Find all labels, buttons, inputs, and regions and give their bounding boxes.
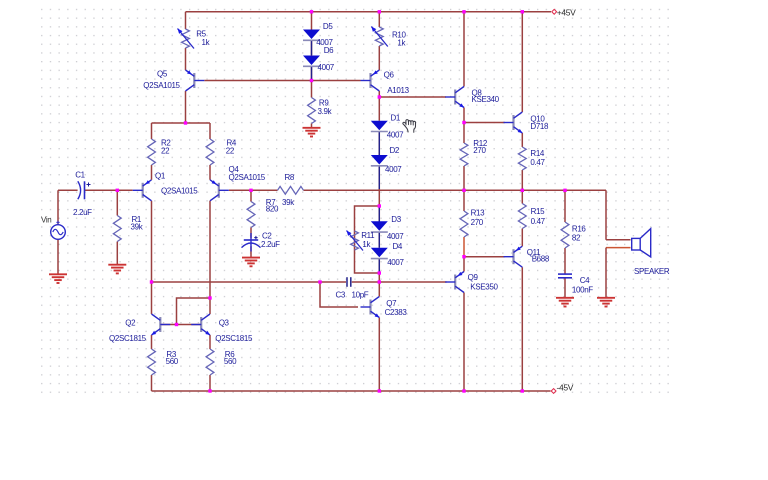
wire Q7 collector to Q9 base [379, 281, 446, 283]
wire R8 to output rail [304, 189, 607, 191]
wire Q2 base to Q3 base [160, 324, 201, 326]
svg-text:3.9k: 3.9k [318, 107, 333, 116]
svg-text:560: 560 [166, 357, 179, 366]
svg-text:4007: 4007 [318, 63, 335, 72]
transistor Q6 A1013 [361, 70, 380, 91]
svg-text:D6: D6 [324, 46, 334, 55]
node +45V R10 [378, 10, 381, 13]
wire top +45V rail [186, 11, 552, 13]
svg-text:-45V: -45V [557, 383, 574, 393]
svg-text:Q2SC1815: Q2SC1815 [109, 334, 147, 343]
svg-text:D2: D2 [390, 146, 400, 155]
node Q9 collector rail [462, 389, 465, 392]
resistor R8 39k [278, 186, 304, 194]
wire R5 top pin [185, 12, 187, 29]
ground (R9) [303, 128, 321, 137]
svg-text:KSE350: KSE350 [470, 283, 498, 292]
svg-text:A1013: A1013 [387, 86, 409, 95]
svg-text:R14: R14 [530, 149, 545, 158]
svg-text:1k: 1k [202, 38, 211, 47]
svg-text:Q3: Q3 [219, 319, 230, 328]
capacitor C2 2.2uF [250, 233, 252, 252]
wire R15 to Q11 emitter [521, 229, 523, 247]
svg-text:R13: R13 [471, 209, 486, 218]
wire Q3 emitter to R6 [209, 335, 211, 349]
svg-text:R15: R15 [531, 207, 546, 216]
mouse hand cursor [403, 120, 416, 133]
wire R16 to C4 [564, 248, 566, 274]
resistor R4 22 [206, 139, 214, 165]
wire Q4 base to R7 node [229, 189, 251, 191]
svg-text:D3: D3 [391, 215, 401, 224]
svg-text:Q6: Q6 [384, 71, 395, 80]
svg-text:560: 560 [224, 357, 237, 366]
svg-text:0.47: 0.47 [531, 217, 546, 226]
wire R14 to output [521, 170, 523, 190]
node Q1 collector/C3 line [150, 280, 153, 283]
terminal +45V [552, 9, 557, 14]
svg-text:KSE340: KSE340 [472, 95, 500, 104]
wire R10 top pin [378, 12, 380, 27]
transistor Q11 B688 [504, 246, 523, 267]
node Q5 collector/R2/R4 [184, 121, 187, 124]
diode D5 4007 [303, 30, 320, 40]
node output R16 [563, 189, 566, 192]
wire to Q7 base [320, 282, 358, 307]
wire Q1 collector down to Q2 collector [151, 201, 153, 314]
svg-text:R8: R8 [285, 173, 295, 182]
ground (Vin) [49, 274, 67, 283]
wire D4 down to Q7 collector [378, 259, 380, 297]
wire Q8 emitter to Q10 base [464, 122, 505, 124]
wire D6 cathode to R9 [311, 66, 313, 97]
wire Q1 collector node to C3 [152, 281, 321, 283]
svg-text:Q2SC1815: Q2SC1815 [215, 334, 253, 343]
resistor R5 1k (variable) [182, 29, 190, 48]
wire Q6 collector to Q8 base [379, 96, 446, 98]
wire Q8 emitter to R12 [463, 108, 465, 144]
svg-text:22: 22 [161, 146, 170, 155]
transistor Q2 Q2SC1815 [152, 314, 171, 335]
svg-text:39k: 39k [131, 223, 144, 232]
resistor R12 270 [460, 143, 468, 166]
resistor R6 560 [206, 349, 214, 375]
wire Vin to ground [57, 239, 59, 274]
svg-text:C2383: C2383 [385, 308, 408, 317]
node +45V Q10 [521, 10, 524, 13]
diode D6 4007 [303, 56, 320, 66]
wire R13 to Q11-base node [463, 237, 465, 257]
wire output to R13 [463, 190, 465, 211]
svg-text:SPEAKER: SPEAKER [634, 267, 670, 276]
svg-text:1k: 1k [397, 39, 406, 48]
resistor R11 1k (variable) [351, 231, 359, 250]
wire C3 left stub [320, 281, 346, 283]
transistor Q10 D718 [504, 112, 523, 133]
node Q11 collector rail [521, 389, 524, 392]
svg-text:C4: C4 [580, 276, 590, 285]
node +45V Q8 [462, 10, 465, 13]
node output R12/R13 [462, 189, 465, 192]
svg-text:820: 820 [266, 204, 279, 213]
resistor R16 82 [561, 222, 569, 248]
wire Q11 collector to bottom rail [521, 267, 523, 391]
wire R7 top pin [250, 190, 252, 201]
wire D5 cathode to D6 anode [311, 40, 313, 55]
transistor Q7 C2383 [361, 297, 380, 318]
capacitor C1 2.2uF [78, 181, 81, 199]
svg-text:2.2uF: 2.2uF [261, 240, 280, 249]
resistor R14 0.47 [518, 147, 526, 170]
wire R6 to bottom rail [209, 375, 211, 391]
svg-text:Q1: Q1 [155, 172, 166, 181]
capacitor C3 10pF [346, 277, 348, 287]
wire Q10 collector [521, 12, 523, 112]
node R6 bottom rail [208, 389, 211, 392]
wire R3 to bottom rail [151, 375, 153, 391]
resistor R1 39k [113, 216, 121, 242]
node D4/R11 bottom [378, 271, 381, 274]
svg-text:Q5: Q5 [157, 70, 168, 79]
wire speaker bottom stub [606, 247, 631, 249]
resistor R10 1k (variable) [375, 27, 383, 46]
wire R2 to Q1 emitter [151, 165, 153, 180]
svg-text:82: 82 [572, 234, 581, 243]
wire D5 anode pin [311, 12, 313, 30]
diode D2 4007 [371, 155, 388, 165]
wire Vin to C1 [58, 189, 78, 191]
svg-text:R16: R16 [572, 224, 587, 233]
node output R14/R15 [521, 189, 524, 192]
wire D1 to D2 [378, 132, 380, 155]
wire C1 to Q1 base [85, 189, 133, 191]
svg-text:100nF: 100nF [572, 286, 593, 295]
ground (C4) [556, 298, 574, 307]
resistor R9 3.9k [308, 98, 316, 124]
resistor R3 560 [148, 349, 156, 375]
svg-text:4007: 4007 [387, 131, 404, 140]
svg-text:Q2SA1015: Q2SA1015 [229, 173, 266, 182]
node +45V D5 [310, 10, 313, 13]
node Q7 collector/C3/Q9 base [378, 280, 381, 283]
wire output down to speaker [605, 190, 607, 240]
ground (R1) [108, 265, 126, 274]
wire Q2 emitter to R3 [151, 335, 153, 349]
wire Q6 collector to D1 [378, 91, 380, 121]
node C3/Q7 base [318, 280, 321, 283]
wire C2 to ground [250, 246, 252, 257]
wire Q10 emitter to R14 [521, 133, 523, 147]
wire R9 to ground stub [311, 124, 313, 129]
wire R1 to ground [116, 242, 118, 265]
wire R10 to Q6 emitter [378, 46, 380, 70]
svg-text:39k: 39k [282, 198, 295, 207]
node Q7 emitter rail [378, 389, 381, 392]
node Q8 emitter/R12/Q10 base [462, 121, 465, 124]
transistor Q9 KSE350 [445, 272, 464, 293]
wire output to R16 [564, 190, 566, 222]
svg-text:D5: D5 [323, 22, 333, 31]
wire Q7 emitter to bottom rail [378, 318, 380, 392]
svg-text:R11: R11 [361, 231, 375, 240]
svg-text:0.47: 0.47 [530, 158, 545, 167]
wire Q5 collector down [185, 91, 187, 123]
wire R4 top pin [209, 123, 211, 139]
resistor R7 820 [247, 202, 255, 228]
wire bottom -45V rail [152, 390, 551, 392]
svg-text:Q7: Q7 [386, 299, 397, 308]
svg-text:4007: 4007 [387, 232, 404, 241]
ground (speaker) [597, 298, 615, 307]
wire C3 right stub [352, 281, 380, 283]
svg-text:2.2uF: 2.2uF [73, 208, 92, 217]
resistor R15 0.47 [518, 204, 526, 229]
svg-text:D1: D1 [391, 113, 401, 122]
ground (C2) [242, 258, 260, 267]
wire mirror loop to Q3 collector [177, 298, 211, 325]
node Q2/Q3 bases [175, 323, 178, 326]
svg-text:22: 22 [226, 146, 235, 155]
svg-text:D4: D4 [393, 242, 403, 251]
terminal -45V [551, 389, 556, 394]
resistor R13 270 [460, 211, 468, 237]
wire R1 top pin [116, 190, 118, 215]
wire speaker to ground [605, 248, 607, 298]
svg-text:Q2SA1015: Q2SA1015 [143, 81, 180, 90]
node D6/R9/base line [310, 79, 313, 82]
node R13/Q9/Q11 base [462, 255, 465, 258]
diode D4 4007 [371, 248, 388, 257]
svg-text:10pF: 10pF [352, 291, 369, 300]
wire R5 bottom to Q5 emitter [185, 48, 187, 70]
svg-text:B688: B688 [532, 255, 550, 264]
node Q3 collector loop [208, 296, 211, 299]
diode D1 4007 [371, 121, 388, 131]
transistor Q3 Q2SC1815 [191, 314, 210, 335]
svg-text:C1: C1 [75, 171, 85, 180]
wire output to R15 [521, 190, 523, 203]
wire Q8 collector [463, 12, 465, 87]
wire R2 top pin [151, 123, 153, 139]
speaker [632, 238, 641, 250]
diode D3 4007 [371, 221, 388, 231]
node R7/R8/Q4 base [249, 189, 252, 192]
node R1/C1/Q1 [116, 189, 119, 192]
svg-text:Q2SA1015: Q2SA1015 [161, 186, 198, 195]
wire D3 to D4 [378, 232, 380, 248]
wire Q5 base to Q6 base [204, 80, 360, 82]
capacitor C4 100nF [558, 273, 572, 275]
wire R11 bypass branch [355, 206, 380, 273]
diode chain navy pin segments [378, 132, 380, 158]
svg-text:+45V: +45V [557, 7, 576, 17]
svg-text:1k: 1k [362, 240, 371, 249]
svg-text:Q2: Q2 [125, 319, 136, 328]
transistor Q1 Q2SA1015 [133, 180, 152, 201]
svg-text:Vin: Vin [41, 215, 51, 224]
svg-text:D718: D718 [530, 122, 549, 131]
svg-text:4007: 4007 [387, 258, 404, 267]
wire R12 to output [463, 166, 465, 190]
wire Q9 collector to bottom rail [463, 293, 465, 392]
svg-text:270: 270 [473, 146, 486, 155]
wire R4 to Q4 emitter [209, 165, 211, 180]
source Vin [51, 225, 66, 240]
wire speaker top stub [606, 239, 631, 241]
wire node to Q9 emitter [463, 257, 465, 272]
svg-text:Q9: Q9 [468, 273, 479, 282]
resistor R2 22 [148, 139, 156, 165]
node D2-D3/R11 top [378, 204, 381, 207]
transistor Q8 KSE340 [445, 87, 464, 108]
transistor Q4 Q2SA1015 [210, 180, 229, 201]
wire node to R8 [251, 189, 278, 191]
wire Q4 collector down to Q3 collector [209, 201, 211, 314]
svg-text:270: 270 [471, 218, 484, 227]
transistor Q5 Q2SA1015 [186, 70, 205, 91]
wire D2 to D3 (crosses output line) [378, 166, 380, 222]
wire Vin top [57, 190, 59, 224]
svg-text:4007: 4007 [385, 165, 402, 174]
svg-text:C3: C3 [336, 291, 346, 300]
node Q6/Q8 base [378, 95, 381, 98]
wire C4 to ground [564, 278, 566, 297]
wire R7 to C2 [250, 228, 252, 239]
wire R2-R4 top rail [152, 122, 211, 124]
wire node to Q11 base [464, 256, 505, 258]
